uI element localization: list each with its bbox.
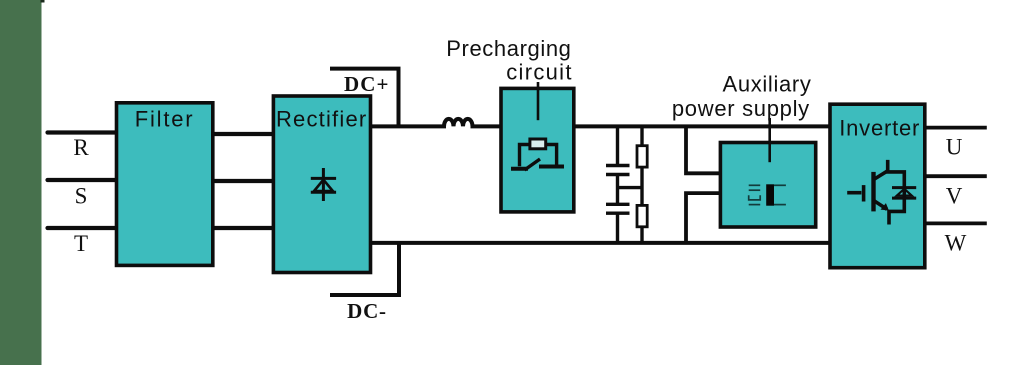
svg-text:S: S: [75, 184, 88, 209]
svg-text:Rectifier: Rectifier: [276, 106, 368, 131]
svg-text:Auxiliary: Auxiliary: [723, 71, 812, 96]
svg-text:DC+: DC+: [344, 72, 390, 96]
svg-text:V: V: [946, 184, 963, 209]
svg-text:DC-: DC-: [347, 299, 387, 323]
svg-text:circuit: circuit: [506, 60, 573, 85]
svg-text:R: R: [73, 135, 89, 160]
svg-text:power supply: power supply: [672, 96, 810, 121]
svg-text:U: U: [946, 134, 963, 159]
svg-text:Filter: Filter: [135, 106, 195, 131]
svg-text:W: W: [945, 231, 967, 256]
svg-text:Inverter: Inverter: [839, 115, 920, 140]
svg-text:Precharging: Precharging: [446, 36, 571, 61]
svg-text:T: T: [74, 231, 88, 256]
